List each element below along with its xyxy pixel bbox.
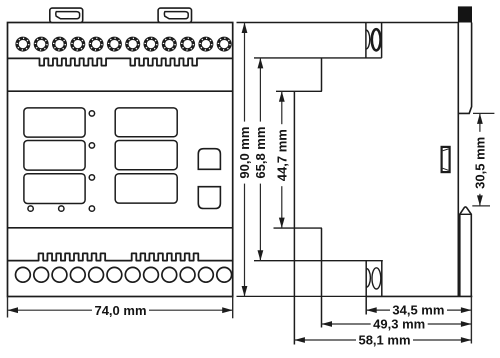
svg-text:74,0 mm: 74,0 mm — [94, 303, 146, 318]
74.0mm left extension — [7, 297, 9, 318]
right shared extension line — [470, 296, 472, 343]
bottom indicator dot 3 — [89, 206, 94, 211]
44.7mm dimension line — [281, 91, 283, 228]
upper front step surface + 44.7mm top extension — [276, 90, 322, 92]
svg-text:34,5 mm: 34,5 mm — [392, 303, 444, 318]
display window row1 right — [115, 108, 177, 137]
display window row3 right — [115, 174, 177, 203]
58.1mm dimension line — [294, 339, 471, 341]
display window row1 left — [24, 108, 85, 137]
bottom indicator dot 1 — [28, 206, 33, 211]
rail slot bevel top — [443, 149, 449, 151]
rail slot bevel bottom — [443, 168, 449, 170]
34.5mm dimension line — [366, 309, 471, 311]
bottom extension line from front view to side view — [237, 295, 367, 297]
svg-text:49,3 mm: 49,3 mm — [373, 317, 425, 332]
svg-text:44,7 mm: 44,7 mm — [275, 129, 290, 181]
upper step vertical — [321, 58, 323, 91]
top mounting tab left outer — [50, 8, 83, 22]
side view bottom edge — [366, 295, 472, 297]
30.5mm top extension — [473, 112, 494, 114]
bottom terminal block left wall + 34.5 extension — [365, 261, 367, 315]
svg-text:65,8 mm: 65,8 mm — [253, 127, 268, 179]
65.8mm dimension line — [259, 58, 261, 261]
upper step surface + 65.8mm top extension — [254, 57, 382, 59]
top mounting tab right outer — [158, 8, 191, 22]
lower DIN clip base line — [460, 213, 472, 215]
svg-text:90,0 mm: 90,0 mm — [237, 127, 252, 179]
svg-text:30,5 mm: 30,5 mm — [473, 137, 488, 189]
front view outer housing box — [8, 23, 233, 297]
button up — [198, 149, 220, 170]
bottom screw ellipse — [372, 268, 381, 289]
rear wall — [457, 23, 459, 297]
upper rear slab with chamfer — [458, 23, 471, 114]
lower front step surface + 44.7mm bottom extension — [274, 227, 322, 229]
indicator dot beside row1 — [89, 111, 94, 116]
74.0mm right extension — [232, 297, 234, 319]
indicator dot beside row2 — [89, 143, 94, 148]
top edge + 90mm top extension line — [237, 22, 459, 24]
top terminal block right wall — [381, 23, 383, 58]
30.5mm bottom extension — [472, 205, 490, 207]
lower step surface + 65.8mm bottom extension — [254, 260, 383, 262]
bottom terminal row (12 plain holes) — [16, 267, 31, 282]
top vent line with slots — [8, 58, 233, 65]
display window row2 left — [24, 141, 85, 171]
bottom vent line with slots — [8, 253, 233, 260]
indicator dot beside row3 — [89, 175, 94, 180]
separator line above bottom vent — [8, 227, 233, 229]
bottom indicator dot 2 — [59, 206, 64, 211]
front face of side view + 58.1 extension — [293, 91, 295, 344]
90.0mm dimension line — [244, 23, 246, 297]
display window row2 right — [115, 141, 177, 170]
top screw ellipse (bold) — [372, 29, 381, 50]
display window row3 left — [24, 174, 85, 204]
black DIN release tab — [458, 6, 472, 22]
lower step vertical + 49.3 extension — [321, 228, 323, 327]
top screw half ellipse — [366, 30, 370, 49]
49.3mm dimension line — [322, 323, 472, 325]
top screw terminal row (12 knurled screws) — [15, 37, 30, 52]
top mounting tab right inner slot — [164, 12, 188, 19]
rail slot rectangle — [442, 147, 450, 172]
separator line below top vent — [8, 90, 233, 92]
button down — [198, 187, 220, 209]
lower DIN clip with peak — [460, 207, 472, 296]
bottom terminal block right wall — [381, 261, 383, 297]
74.0mm dimension line — [8, 309, 233, 311]
bottom screw half ellipse — [366, 268, 370, 287]
svg-text:58,1 mm: 58,1 mm — [358, 333, 410, 348]
top mounting tab left inner slot — [56, 12, 80, 19]
30.5mm dimension line — [479, 113, 481, 205]
top terminal block left wall — [365, 23, 367, 58]
